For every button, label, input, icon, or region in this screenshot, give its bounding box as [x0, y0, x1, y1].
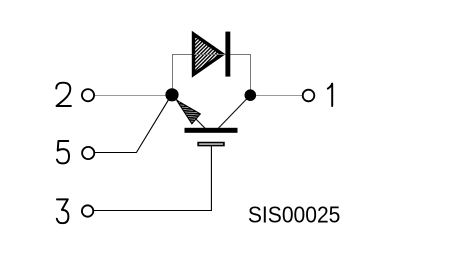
svg-text:SIS00025: SIS00025	[248, 201, 341, 227]
